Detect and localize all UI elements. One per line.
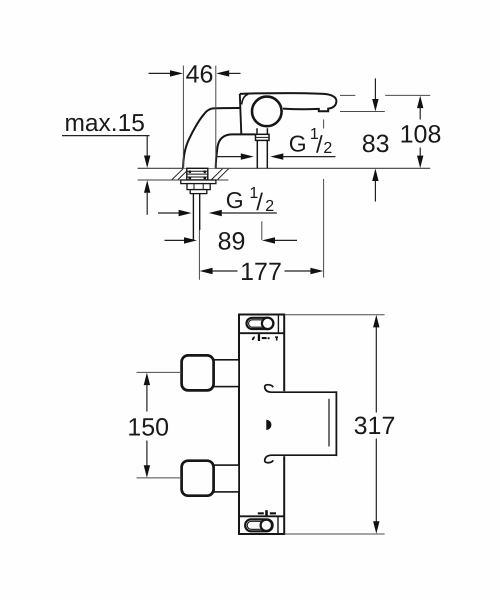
svg-text:317: 317 <box>354 412 396 440</box>
spout top reference line seg1 <box>340 94 355 96</box>
thermostat body <box>239 315 284 535</box>
collar under circle <box>256 134 270 140</box>
arrowhead lower G12 right-pointing <box>179 210 192 216</box>
svg-text:150: 150 <box>127 413 169 441</box>
svg-text:2: 2 <box>265 198 274 215</box>
top cap pill inner <box>249 320 267 327</box>
lever outline <box>240 93 337 111</box>
lower collar <box>190 190 207 194</box>
top cap bottom line <box>239 332 284 334</box>
arrowhead 89 right-pointing <box>184 237 197 243</box>
label G 1/2 upper <box>289 126 333 159</box>
top union stub <box>209 360 240 387</box>
joint pipe left line <box>256 140 258 168</box>
svg-text:G: G <box>289 130 307 156</box>
upper G1/2 right leader <box>283 156 336 158</box>
arrowhead 108 up <box>417 96 423 109</box>
lower G1/2 left leader <box>158 212 180 214</box>
dim 317 upper stem <box>375 327 377 413</box>
arrowhead 83 up <box>372 169 378 182</box>
dim 150 upper stem <box>146 385 148 412</box>
joint pipe extension line <box>261 221 263 240</box>
arrowhead max.15 down <box>144 156 150 169</box>
threaded shank through deck <box>187 168 208 180</box>
dim 83 lower stem <box>374 181 376 202</box>
temperature pictogram marks <box>252 334 278 341</box>
pipe centre extension line <box>198 230 200 280</box>
leader line max.15 <box>62 135 150 137</box>
dim 177 right segment <box>285 270 312 272</box>
outlet reference line <box>340 111 385 113</box>
supply pipe left line <box>192 194 194 241</box>
joint pipe right line <box>266 140 268 168</box>
deck top line <box>138 167 431 169</box>
arrowhead 150 up <box>144 373 150 386</box>
joint housing left edge <box>240 94 242 134</box>
arrowhead 46 left <box>170 70 183 76</box>
thread lines <box>187 171 208 177</box>
317 bottom extension line <box>285 533 385 535</box>
ball joint circle <box>252 97 282 127</box>
arrowhead 150 down <box>144 465 150 478</box>
arrowhead 317 up <box>373 315 379 328</box>
upper G1/2 left leader <box>216 156 241 158</box>
arrowhead 177 left-pointing <box>200 268 213 274</box>
protrusion inner line <box>328 399 330 447</box>
dim 150 lower stem <box>146 441 148 467</box>
arrowhead 177 right-pointing <box>310 268 323 274</box>
right protrusion bottom edge <box>265 455 337 463</box>
right protrusion top edge <box>265 385 337 393</box>
bottom cap pill outer <box>245 519 272 531</box>
max.15 lower arrow stem <box>146 192 148 215</box>
deck hatch left <box>172 169 189 180</box>
svg-text:46: 46 <box>186 61 214 89</box>
arrowhead 46 right <box>216 70 229 76</box>
spout inner edge <box>216 134 256 168</box>
locknut facets <box>194 184 203 190</box>
temperature button mark <box>266 420 271 430</box>
svg-text:max.15: max.15 <box>65 110 145 137</box>
top cap pill outer <box>247 318 274 329</box>
svg-text:83: 83 <box>362 130 390 158</box>
washer below deck <box>181 180 216 184</box>
bottom cap circle <box>261 520 272 531</box>
arrowhead lower G12 left-pointing <box>209 210 222 216</box>
arrowhead upper G12 left-pointing <box>270 153 283 159</box>
right protrusion opening (erase body edge) <box>283 391 338 456</box>
lever left end cap <box>242 94 249 104</box>
svg-text:177: 177 <box>240 258 282 286</box>
svg-text:108: 108 <box>400 121 442 149</box>
dim 177 left segment <box>212 270 238 272</box>
dimension 46 left leader <box>149 72 172 74</box>
dim 108 lower stem <box>419 148 421 157</box>
dim 83 upper stem <box>374 78 376 100</box>
svg-text:2: 2 <box>323 140 332 157</box>
arrowhead max.15 up <box>144 180 150 193</box>
neck stubs under circle <box>257 128 267 134</box>
dim 108 upper stem <box>419 108 421 120</box>
arrowhead 108 down <box>417 156 423 169</box>
bottom cap pill inner <box>247 521 265 529</box>
arrowhead upper G12 right-pointing <box>241 153 254 159</box>
arrowhead 83 down <box>372 99 378 112</box>
nub extension line lower segment <box>323 179 325 278</box>
bottom union nut <box>182 461 214 496</box>
317 top extension line <box>285 314 385 316</box>
dim 89 left leader <box>165 239 186 241</box>
dimension 46 right leader <box>229 72 241 74</box>
bottom union stub <box>209 465 240 492</box>
dim 317 lower stem <box>375 439 377 522</box>
deck bottom line <box>138 179 229 181</box>
collar midline <box>256 136 270 138</box>
svg-text:/: / <box>256 189 263 216</box>
svg-text:89: 89 <box>218 228 246 256</box>
deck hatch right <box>212 169 229 180</box>
max.15 upper arrow stem <box>146 136 148 156</box>
extension line 46 right <box>215 66 217 169</box>
label G 1/2 lower <box>226 185 274 216</box>
right protrusion right edge <box>335 391 337 456</box>
bottom union centreline extension <box>137 477 182 479</box>
top union nut <box>182 355 214 390</box>
spout top reference line seg2 <box>385 94 430 96</box>
svg-text:/: / <box>316 131 323 158</box>
lower G1/2 right leader <box>221 212 277 214</box>
locknut <box>187 184 210 190</box>
dim 89 right leader <box>274 239 297 241</box>
arrowhead 317 down <box>373 521 379 534</box>
bottom cap top line <box>239 515 284 517</box>
spout body white silhouette <box>183 93 336 168</box>
svg-text:G: G <box>226 187 244 213</box>
extension line 46 left <box>182 66 184 169</box>
spout outer edge and flat top <box>183 108 240 168</box>
top cap inner vertical line <box>277 315 279 334</box>
flow pictogram marks <box>258 510 276 516</box>
thread corner dots <box>188 170 206 179</box>
top union centreline extension <box>137 371 182 373</box>
bottom cap inner vertical line <box>277 516 279 534</box>
nub extension line upper segment <box>323 120 325 129</box>
top cap circle <box>262 318 273 329</box>
arrowhead 89 left-pointing <box>262 237 275 243</box>
supply pipe right line <box>199 194 201 230</box>
